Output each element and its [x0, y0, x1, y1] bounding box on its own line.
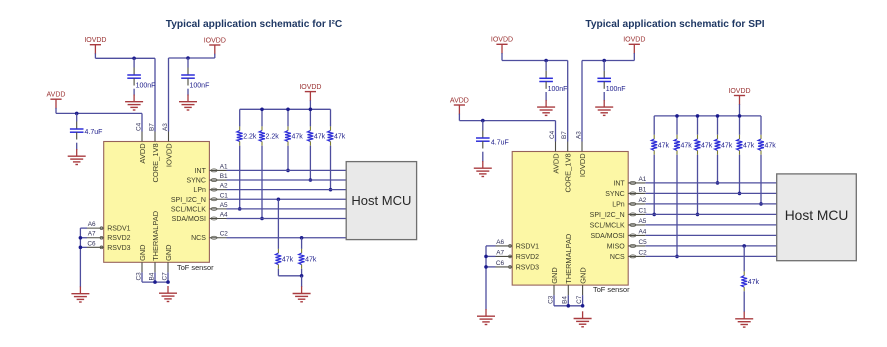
svg-text:SDA/MOSI: SDA/MOSI	[590, 233, 624, 240]
wire cap2 upper	[187, 58, 189, 68]
wire column x=739.5 upper (SPI)	[739, 116, 741, 135]
svg-text:2.2k: 2.2k	[243, 134, 257, 141]
wire column x=330.5 upper	[330, 109, 332, 126]
power flag AVDD (SPI)	[450, 97, 469, 105]
R pull-down 47k MISO	[741, 271, 759, 291]
R pull-down 47k NCS	[299, 249, 317, 269]
svg-text:IOVDD: IOVDD	[164, 143, 173, 167]
junction cap2 tap (SPI)	[602, 59, 606, 63]
svg-text:A3: A3	[162, 123, 169, 131]
wire 4.7uF upper (SPI)	[482, 121, 484, 131]
svg-text:B1: B1	[220, 173, 228, 180]
junction NCS pulldown tap	[300, 236, 304, 240]
R pull-up 2.2k #2 SDA	[259, 126, 279, 145]
junction column to signal (SPI)	[696, 213, 700, 217]
junction RSVD2 (SPI)	[484, 255, 488, 259]
svg-text:SPI_I2C_N: SPI_I2C_N	[171, 197, 206, 204]
R pull-up 47k #3 SPI_I2C_N b	[695, 135, 713, 155]
pin C2 NCS (I2C right)	[191, 231, 228, 243]
svg-text:CORE_1V8: CORE_1V8	[564, 153, 573, 192]
junction column to signal (SPI)	[652, 213, 656, 217]
svg-text:Host MCU: Host MCU	[785, 208, 849, 223]
wire cap2 to ground	[187, 89, 189, 96]
wire column x=717.5 lower (SPI)	[717, 155, 719, 183]
junction column to signal	[260, 217, 264, 221]
pin A6 RSDV1 (I2C left)	[87, 221, 131, 233]
pin C2 NCS (SPI right)	[610, 249, 647, 261]
svg-text:RSVD2: RSVD2	[107, 235, 130, 242]
svg-text:C6: C6	[87, 240, 96, 247]
svg-text:SPI_I2C_N: SPI_I2C_N	[590, 212, 625, 219]
wire join to ground	[301, 276, 303, 287]
ground under 4.7uF (I2C)	[68, 149, 86, 165]
wire cap1 to ground (SPI)	[545, 92, 547, 101]
pin A2 LPn (I2C right)	[193, 183, 228, 195]
wire signal y=256.4 to Host MCU (SPI)	[645, 255, 776, 257]
svg-text:C1: C1	[220, 192, 229, 199]
wire signal y=218.5 to Host MCU	[227, 218, 347, 220]
R pull-up 2.2k #1 SCL	[237, 126, 257, 145]
svg-text:100nF: 100nF	[190, 83, 210, 90]
svg-text:LPn: LPn	[612, 201, 625, 208]
junction column to signal (SPI)	[675, 255, 679, 259]
power flag IOVDD #1 (I2C)	[84, 37, 106, 45]
svg-text:ToF sensor: ToF sensor	[593, 285, 630, 294]
capacitor 100nF #2 (SPI)	[597, 71, 611, 89]
wire signal y=180.0 to Host MCU	[227, 179, 347, 181]
svg-text:100nF: 100nF	[136, 83, 156, 90]
svg-text:THERMALPAD: THERMALPAD	[151, 211, 160, 261]
ground under cap1 (SPI)	[537, 100, 555, 116]
wire rail IOVDD1 to pin B7 (SPI)	[502, 60, 568, 62]
wire column x=677.0 upper (SPI)	[676, 116, 678, 135]
wire column x=761.0 lower (SPI)	[760, 155, 762, 204]
pin A3 IOVDD (SPI top)	[575, 131, 587, 177]
junction on pull-up rail (SPI)	[716, 114, 720, 118]
junction pulldown join	[300, 274, 304, 278]
wire column x=330.5 lower	[330, 146, 332, 190]
svg-text:47k: 47k	[701, 142, 713, 149]
ground under cap2 (SPI)	[595, 100, 613, 116]
wire RSVD2 stub	[80, 237, 87, 239]
svg-text:RSVD3: RSVD3	[516, 264, 539, 271]
IC ToF sensor body (SPI)	[512, 152, 628, 286]
svg-text:100nF: 100nF	[606, 86, 626, 93]
svg-text:A2: A2	[220, 183, 228, 190]
IC ToF sensor body (I2C)	[104, 142, 210, 263]
R pull-up 47k #4 INT	[715, 135, 733, 155]
junction cap1 tap	[132, 57, 136, 61]
svg-text:GND: GND	[579, 267, 588, 283]
pin A2 LPn (SPI right)	[612, 197, 647, 209]
wire column x=239.7 lower	[239, 146, 241, 209]
wire IOVDD2 stem (SPI)	[633, 44, 635, 54]
wire AVDD rail to pin C4	[56, 112, 142, 114]
wire signal y=208.9 to Host MCU	[227, 208, 347, 210]
svg-text:CORE_1V8: CORE_1V8	[151, 143, 160, 182]
junction column to signal	[238, 207, 242, 211]
junction column to signal	[286, 169, 290, 173]
pin A3 IOVDD (I2C top)	[162, 123, 174, 167]
R pull-up 47k #1 SPI_I2C_N	[651, 135, 669, 155]
wire pulldown1 lower	[277, 269, 279, 276]
wire rail IOVDD2 to pin A3	[169, 57, 215, 59]
wire AVDD rail to pin C4 (SPI)	[459, 120, 555, 122]
power flag IOVDD #3 (SPI pull-up rail)	[728, 88, 750, 96]
junction cap2 tap	[186, 56, 190, 60]
svg-text:C5: C5	[639, 239, 648, 246]
wire column x=761.0 upper (SPI)	[760, 116, 762, 135]
svg-text:IOVDD: IOVDD	[578, 153, 587, 177]
junction on pull-up rail (SPI)	[675, 114, 679, 118]
wire RSVD3 stub (SPI)	[486, 266, 496, 268]
power flag IOVDD #2 (SPI)	[623, 37, 645, 45]
svg-text:A4: A4	[639, 228, 647, 235]
wire AVDD stem	[55, 99, 57, 109]
wire C3 down (SPI)	[553, 295, 555, 306]
wire rail IOVDD1 to pin B7	[95, 57, 155, 59]
capacitor 100nF #2 (I2C)	[181, 68, 195, 86]
pin C6 RSVD3 (I2C left)	[87, 240, 131, 252]
svg-text:Typical application schematic: Typical application schematic for I²C	[166, 19, 343, 30]
pin C6 RSVD3 (SPI left)	[496, 260, 540, 272]
wire column x=310.4 lower	[309, 146, 311, 180]
junction column to signal	[329, 188, 333, 192]
ground under cap1 (I2C)	[125, 95, 143, 111]
wire column x=697.5 lower (SPI)	[697, 155, 699, 215]
wire AVDD stem (SPI)	[458, 105, 460, 115]
junction on pull-up rail (SPI)	[696, 114, 700, 118]
svg-text:A6: A6	[88, 221, 96, 228]
svg-text:C7: C7	[161, 272, 168, 281]
wire column x=288.0 lower	[287, 146, 289, 171]
pin C3 GND (I2C bottom)	[135, 244, 147, 280]
junction 4.7uF tap (SPI)	[481, 119, 485, 123]
R pull-up 47k #3 LPn	[328, 126, 346, 145]
pin B7 CORE_1V8 (I2C top)	[148, 123, 160, 183]
svg-text:C3: C3	[547, 295, 554, 304]
power flag AVDD (I2C)	[47, 92, 66, 100]
junction RSVD3 (SPI)	[484, 265, 488, 269]
wire 4.7uF to ground	[76, 143, 78, 150]
svg-text:B7: B7	[561, 131, 568, 139]
wire pulldown upper (SPI)	[743, 246, 745, 272]
junction MISO pulldown tap (SPI)	[742, 244, 746, 248]
wire signal y=193.4 to Host MCU (SPI)	[645, 192, 776, 194]
wire signal y=245.9 to Host MCU (SPI)	[645, 245, 776, 247]
wire RSVD2 stub (SPI)	[486, 255, 496, 257]
junction cap1 tap (SPI)	[544, 59, 548, 63]
Host MCU block (I2C)	[346, 162, 416, 240]
R pull-up 47k #1 INT	[285, 126, 303, 145]
wire pulldown1 upper	[277, 199, 279, 249]
svg-text:C2: C2	[220, 231, 229, 238]
wire IOVDD3 stem (SPI)	[739, 96, 741, 106]
svg-text:IOVDD: IOVDD	[299, 84, 321, 91]
svg-text:B4: B4	[148, 272, 155, 280]
junction on pull-up rail	[260, 108, 264, 112]
wire signal y=170.4 to Host MCU	[227, 169, 347, 171]
svg-text:GND: GND	[164, 244, 173, 260]
wire cap1 upper (SPI)	[545, 61, 547, 71]
wire column x=310.4 upper	[309, 109, 311, 126]
ground IC GND pins (I2C)	[159, 286, 177, 302]
wire cap2 to ground (SPI)	[603, 92, 605, 101]
junction column to signal (SPI)	[716, 181, 720, 185]
junction C7 join	[166, 280, 170, 284]
svg-text:SDA/MOSI: SDA/MOSI	[172, 216, 206, 223]
pin B1 SYNC (SPI right)	[605, 186, 647, 198]
capacitor 100nF #1 (I2C)	[127, 68, 141, 86]
wire signal y=182.9 to Host MCU (SPI)	[645, 182, 776, 184]
junction column to signal	[309, 178, 313, 182]
R pull-up 47k #2 SYNC	[308, 126, 326, 145]
junction column to signal (SPI)	[759, 202, 763, 206]
junction on pull-up rail (SPI)	[738, 114, 742, 118]
pin C5 MISO (SPI right)	[607, 239, 647, 251]
pin A5 SCL/MCLK (SPI right)	[590, 218, 647, 230]
wire column x=288.0 upper	[287, 109, 289, 126]
svg-text:B4: B4	[562, 296, 569, 304]
wire IOVDD1 stem (SPI)	[501, 44, 503, 54]
wire column x=262.0 upper	[261, 109, 263, 126]
pin C7 GND (I2C bottom)	[161, 244, 173, 280]
svg-text:A6: A6	[496, 239, 504, 246]
wire cap2 upper (SPI)	[603, 61, 605, 71]
wire B4 down	[154, 272, 156, 282]
wire pull-up rail	[240, 108, 331, 110]
pin C1 SPI_I2C_N (SPI right)	[590, 207, 647, 219]
svg-text:GND: GND	[550, 267, 559, 283]
svg-text:RSDV1: RSDV1	[516, 243, 539, 250]
wire C3 down	[141, 272, 143, 282]
junction on pull-up rail	[309, 108, 313, 112]
svg-text:4.7uF: 4.7uF	[491, 139, 509, 146]
svg-text:47k: 47k	[314, 134, 326, 141]
R pull-up 47k #5 SYNC	[737, 135, 755, 155]
svg-text:47k: 47k	[765, 142, 777, 149]
wire IOVDD2 stem	[214, 45, 216, 55]
wire column x=239.7 upper	[239, 109, 241, 126]
wire signal y=235.4 to Host MCU (SPI)	[645, 234, 776, 236]
ground MISO pulldown (SPI)	[735, 312, 753, 328]
wire C7 down	[167, 272, 169, 282]
svg-text:AVDD: AVDD	[47, 92, 66, 99]
capacitor 100nF #1 (SPI)	[539, 71, 553, 89]
ground IC GND pins (SPI)	[574, 311, 592, 327]
svg-text:SYNC: SYNC	[186, 178, 205, 185]
power flag IOVDD #1 (SPI)	[491, 37, 513, 45]
wire column x=654.2 upper (SPI)	[653, 116, 655, 135]
svg-text:A3: A3	[575, 131, 582, 139]
svg-text:100nF: 100nF	[548, 86, 568, 93]
svg-text:47k: 47k	[658, 142, 670, 149]
svg-text:RSVD3: RSVD3	[107, 245, 130, 252]
svg-text:LPn: LPn	[193, 187, 206, 194]
wire signal y=199.3 to Host MCU	[227, 198, 347, 200]
svg-text:A5: A5	[220, 202, 228, 209]
junction 4.7uF tap	[75, 112, 79, 116]
wire rail IOVDD2 to pin A3 (SPI)	[582, 60, 634, 62]
svg-text:B7: B7	[148, 123, 155, 131]
wire C7 down (SPI)	[582, 295, 584, 306]
svg-text:A1: A1	[639, 176, 647, 183]
svg-text:SYNC: SYNC	[605, 191, 624, 198]
svg-text:GND: GND	[138, 244, 147, 260]
R pull-up 47k #6 LPn	[758, 135, 776, 155]
svg-text:Typical application schematic: Typical application schematic for SPI	[585, 19, 764, 30]
wire column x=739.5 lower (SPI)	[739, 155, 741, 194]
pin C3 GND (SPI bottom)	[547, 267, 559, 304]
ground under cap2 (I2C)	[179, 95, 197, 111]
pin B7 CORE_1V8 (SPI top)	[561, 131, 573, 193]
svg-text:IOVDD: IOVDD	[84, 37, 106, 44]
svg-text:47k: 47k	[721, 142, 733, 149]
wire IOVDD1 stem	[94, 45, 96, 55]
wire RSVD3 stub	[80, 246, 87, 248]
pin C7 GND (SPI bottom)	[576, 267, 588, 304]
ground pull-downs (I2C)	[293, 286, 311, 302]
wire column x=262.0 lower	[261, 146, 263, 219]
svg-text:A7: A7	[496, 249, 504, 256]
pin C4 AVDD (SPI top)	[549, 130, 561, 173]
pin B4 THERMALPAD (SPI bottom)	[562, 234, 574, 304]
svg-text:2.2k: 2.2k	[266, 134, 280, 141]
svg-text:A4: A4	[220, 212, 228, 219]
svg-text:IOVDD: IOVDD	[623, 37, 645, 44]
svg-text:47k: 47k	[334, 134, 346, 141]
svg-text:AVDD: AVDD	[551, 153, 560, 174]
power flag IOVDD #2 (I2C)	[204, 37, 226, 45]
junction C7 join (SPI)	[581, 304, 585, 308]
junction RSVD3	[79, 246, 83, 250]
svg-text:SCL/MCLK: SCL/MCLK	[171, 206, 206, 213]
wire pulldown lower (SPI)	[743, 291, 745, 312]
svg-text:ToF sensor: ToF sensor	[177, 263, 214, 272]
wire column x=717.5 upper (SPI)	[717, 116, 719, 135]
pin A1 INT (I2C right)	[195, 163, 228, 175]
svg-text:IOVDD: IOVDD	[204, 37, 226, 44]
svg-text:4.7uF: 4.7uF	[85, 129, 103, 136]
junction SPI_I2C_N pulldown tap	[277, 197, 281, 201]
junction RSVD2	[79, 236, 83, 240]
svg-text:THERMALPAD: THERMALPAD	[564, 234, 573, 284]
svg-text:AVDD: AVDD	[138, 143, 147, 164]
svg-text:47k: 47k	[743, 142, 755, 149]
wire 4.7uF to ground (SPI)	[482, 152, 484, 162]
wire pull-up rail (SPI)	[654, 115, 761, 117]
wire 4.7uF upper	[76, 113, 78, 121]
svg-text:C7: C7	[576, 295, 583, 304]
svg-text:47k: 47k	[748, 279, 760, 286]
wire signal y=214.4 to Host MCU (SPI)	[645, 213, 776, 215]
ground RSVD bus (I2C)	[71, 287, 89, 303]
pin A1 INT (SPI right)	[613, 176, 646, 188]
wire pulldown2 lower	[301, 269, 303, 276]
wire IOVDD3 stem	[309, 92, 311, 102]
svg-text:SCL/MCLK: SCL/MCLK	[590, 222, 625, 229]
svg-text:C3: C3	[135, 272, 142, 281]
R pull-up 47k #2 NCS	[674, 135, 692, 155]
junction B4 join	[153, 280, 157, 284]
svg-text:C4: C4	[135, 122, 142, 131]
pin A4 SDA/MOSI (SPI right)	[590, 228, 646, 240]
capacitor 4.7uF (I2C)	[70, 122, 84, 140]
junction B4 join (SPI)	[567, 304, 571, 308]
svg-text:NCS: NCS	[191, 235, 206, 242]
svg-text:C6: C6	[496, 260, 505, 267]
pin C1 SPI_I2C_N (I2C right)	[171, 192, 228, 204]
ground RSVD bus (SPI)	[477, 309, 495, 325]
wire pulldown2 upper	[301, 238, 303, 249]
svg-text:INT: INT	[195, 168, 207, 175]
wire signal y=224.9 to Host MCU (SPI)	[645, 224, 776, 226]
svg-text:A1: A1	[220, 163, 228, 170]
svg-text:IOVDD: IOVDD	[491, 37, 513, 44]
pin A7 RSVD2 (I2C left)	[87, 231, 131, 243]
junction column to signal (SPI)	[738, 192, 742, 196]
wire column x=697.5 upper (SPI)	[697, 116, 699, 135]
svg-text:47k: 47k	[305, 256, 317, 263]
wire cap1 to ground	[133, 89, 135, 96]
svg-text:47k: 47k	[681, 142, 693, 149]
junction on pull-up rail	[286, 108, 290, 112]
svg-text:NCS: NCS	[610, 254, 625, 261]
wire column x=654.2 lower (SPI)	[653, 155, 655, 215]
svg-text:47k: 47k	[282, 256, 294, 263]
svg-text:C1: C1	[639, 207, 648, 214]
svg-text:MISO: MISO	[607, 243, 625, 250]
pin C4 AVDD (I2C top)	[135, 122, 147, 163]
svg-text:INT: INT	[613, 180, 625, 187]
wire B4 down (SPI)	[567, 295, 569, 306]
pin B1 SYNC (I2C right)	[186, 173, 228, 185]
pin A4 SDA/MOSI (I2C right)	[172, 212, 228, 224]
pin A7 RSVD2 (SPI left)	[496, 249, 540, 261]
svg-text:C2: C2	[639, 249, 648, 256]
svg-text:Host MCU: Host MCU	[351, 193, 411, 208]
svg-text:RSVD2: RSVD2	[516, 254, 539, 261]
wire signal y=203.9 to Host MCU (SPI)	[645, 203, 776, 205]
capacitor 4.7uF (SPI)	[476, 131, 490, 149]
ground under 4.7uF (SPI)	[474, 161, 492, 177]
pin A6 RSDV1 (SPI left)	[496, 239, 540, 251]
svg-text:C4: C4	[549, 130, 556, 139]
power flag IOVDD #3 (I2C pull-up rail)	[299, 84, 321, 92]
svg-text:IOVDD: IOVDD	[728, 88, 750, 95]
svg-text:AVDD: AVDD	[450, 97, 469, 104]
svg-text:B1: B1	[639, 186, 647, 193]
svg-text:A5: A5	[639, 218, 647, 225]
wire signal y=237.7 to Host MCU	[227, 237, 347, 239]
wire cap1 upper	[133, 58, 135, 67]
wire RSDV1 to ground bus (SPI)	[486, 245, 496, 247]
wire RSDV1 to ground bus	[80, 227, 87, 229]
Host MCU block (SPI)	[777, 174, 857, 261]
wire column x=677.0 lower (SPI)	[676, 155, 678, 257]
pin B4 THERMALPAD (I2C bottom)	[148, 211, 160, 281]
svg-text:47k: 47k	[292, 134, 304, 141]
svg-text:A2: A2	[639, 197, 647, 204]
svg-text:A7: A7	[88, 231, 96, 238]
wire signal y=189.6 to Host MCU	[227, 189, 347, 191]
pin A5 SCL/MCLK (I2C right)	[171, 202, 228, 214]
svg-text:RSDV1: RSDV1	[107, 226, 130, 233]
R pull-down 47k SPI_I2C_N	[276, 249, 294, 269]
